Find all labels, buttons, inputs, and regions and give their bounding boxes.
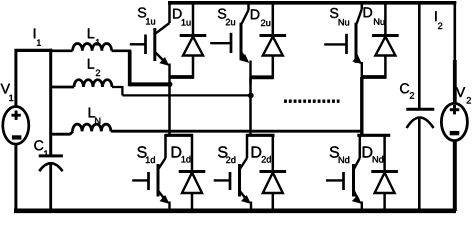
diode DNu bbox=[372, 1, 399, 79]
wire leg2 lower local bus bbox=[247, 134, 275, 137]
wire C2 top lead bbox=[418, 1, 421, 109]
label S1u bbox=[138, 7, 155, 24]
wire L1 to leg1 midpoint bbox=[130, 51, 171, 87]
inductor L2 bbox=[51, 80, 123, 87]
label SNu bbox=[330, 8, 349, 26]
junction dot leg2 L2 bbox=[248, 93, 254, 99]
transistor SNd bbox=[326, 134, 362, 211]
label S2d bbox=[218, 146, 235, 163]
inductor L1 bbox=[51, 44, 132, 51]
wire right branch lower (V2 to bottom bus) bbox=[453, 140, 457, 211]
transistor S1u bbox=[130, 1, 170, 85]
label DNu bbox=[364, 7, 385, 24]
label LN bbox=[89, 108, 101, 124]
wire leg 2u midpoint rail bbox=[251, 75, 274, 79]
label C2 bbox=[400, 83, 414, 98]
junction dot leg1 L1 bbox=[167, 82, 172, 87]
node I2 label bbox=[435, 11, 442, 29]
label L1 bbox=[88, 28, 100, 45]
label V2 bbox=[456, 87, 471, 103]
diode D2u bbox=[260, 1, 287, 79]
label L2 bbox=[88, 59, 100, 76]
capacitor C2 bbox=[406, 109, 434, 128]
diode D1u bbox=[180, 1, 207, 79]
wire left top (I1 wire) bbox=[15, 49, 53, 52]
label C1 bbox=[34, 140, 48, 157]
wire legN lower local bus bbox=[357, 134, 390, 137]
label SNd bbox=[330, 146, 349, 163]
wire top DC bus bbox=[168, 1, 456, 5]
wire leg1 mid vertical bbox=[168, 84, 171, 136]
label D2u bbox=[251, 9, 270, 26]
label S2u bbox=[218, 9, 235, 26]
transistor SNu bbox=[324, 1, 362, 79]
inductor LN bbox=[51, 124, 111, 134]
wire C1 bottom lead bbox=[49, 164, 52, 212]
label D1d bbox=[172, 146, 191, 162]
transistor S1d bbox=[132, 134, 169, 211]
label D1u bbox=[173, 9, 190, 26]
wire leg 1u midpoint rail bbox=[170, 75, 195, 79]
diode D2d bbox=[260, 134, 287, 211]
wire right branch upper (top bus to V2) bbox=[453, 1, 456, 105]
wire LN to legN midpoint bbox=[111, 130, 363, 133]
wire V1 top drop bbox=[14, 49, 17, 108]
label V1 bbox=[1, 84, 14, 101]
dotted line (more phases) bbox=[284, 99, 340, 102]
node I1 label bbox=[34, 29, 41, 46]
voltage source V1 bbox=[3, 107, 29, 145]
label D2d bbox=[252, 146, 271, 162]
diode D1d bbox=[179, 134, 206, 211]
voltage source V2 bbox=[441, 103, 467, 140]
transistor S2d bbox=[214, 134, 251, 211]
wire leg1 lower local bus bbox=[165, 134, 193, 137]
wire leg2 mid vertical bbox=[249, 77, 252, 136]
label S1d bbox=[137, 146, 155, 163]
wire V1 bottom drop bbox=[14, 143, 17, 211]
wire L2 to leg2 midpoint bbox=[122, 86, 250, 95]
diode DNd bbox=[371, 134, 398, 211]
transistor S2u bbox=[210, 1, 250, 85]
label DNd bbox=[363, 146, 383, 162]
capacitor C1 bbox=[39, 156, 63, 171]
wire bottom DC bus bbox=[14, 209, 456, 214]
wire leg Nu midpoint rail bbox=[362, 75, 387, 79]
wire legN mid vertical bbox=[360, 77, 363, 136]
wire left inductor bus bbox=[49, 49, 52, 156]
wire C2 bottom lead bbox=[418, 117, 421, 211]
